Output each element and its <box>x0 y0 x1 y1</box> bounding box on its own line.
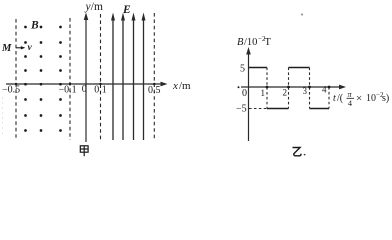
svg-text:4: 4 <box>322 85 327 95</box>
svg-text:0.1: 0.1 <box>94 85 107 96</box>
svg-text:B: B <box>30 19 39 31</box>
svg-text:/(: /( <box>337 93 344 104</box>
svg-text:−5: −5 <box>236 104 247 115</box>
svg-text:0: 0 <box>242 88 247 99</box>
svg-text:3: 3 <box>303 86 308 96</box>
svg-text:1: 1 <box>261 88 266 98</box>
svg-text:/m: /m <box>179 80 191 92</box>
svg-text:×: × <box>356 93 362 105</box>
svg-text:s): s) <box>382 93 389 104</box>
svg-text:2: 2 <box>283 88 288 98</box>
svg-text:/10: /10 <box>244 37 257 48</box>
svg-text:T: T <box>265 37 272 48</box>
svg-text:0.5: 0.5 <box>148 85 161 96</box>
svg-text:4: 4 <box>348 99 352 108</box>
svg-text:t: t <box>333 93 336 104</box>
svg-text:10: 10 <box>366 93 376 104</box>
svg-text:/m: /m <box>91 1 103 13</box>
svg-text:M: M <box>1 43 12 54</box>
svg-text:E: E <box>122 4 131 16</box>
svg-text:B: B <box>237 37 244 48</box>
svg-text:0: 0 <box>82 84 87 95</box>
svg-text:−0.1: −0.1 <box>59 85 77 96</box>
svg-text:−0.5: −0.5 <box>2 85 20 96</box>
svg-text:5: 5 <box>240 64 245 75</box>
svg-text:x: x <box>172 80 178 92</box>
